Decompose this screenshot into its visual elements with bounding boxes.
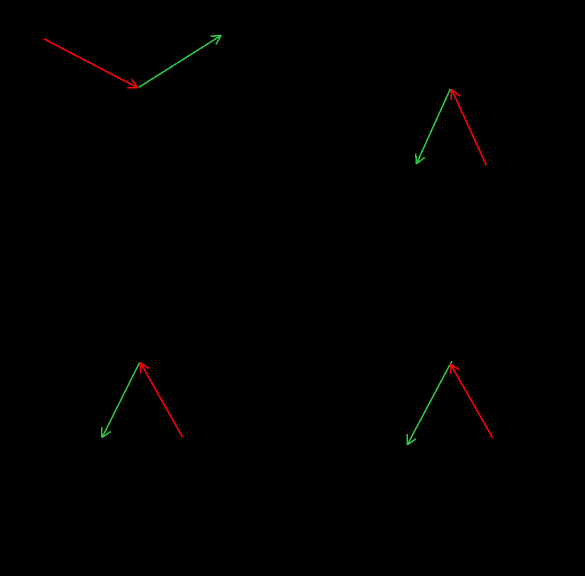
red arrow 1 (top-left, pointing down-right) — [44, 39, 138, 88]
green arrow 2 (top-right, pointing down-left) — [416, 89, 451, 164]
red arrow 4 (bottom-right, pointing up-left) — [451, 364, 493, 438]
red arrow 2 (top-right, pointing up-left) — [451, 89, 486, 165]
green arrow 4 (bottom-right, pointing down-left) — [407, 361, 452, 445]
red arrow 3 (bottom-left, pointing up-left) — [140, 363, 182, 438]
green arrow 3 (bottom-left, pointing down-left) — [102, 362, 140, 437]
green arrow 1 (top-left, pointing up-right) — [139, 35, 222, 87]
